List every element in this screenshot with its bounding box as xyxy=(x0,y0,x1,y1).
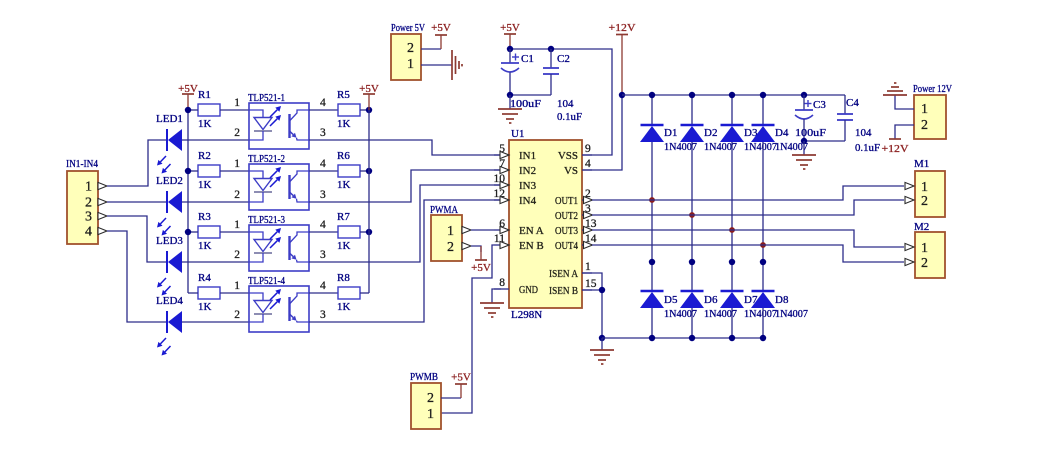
wire diode column 3 xyxy=(731,95,733,125)
optocoupler U4 TLP521-3 box xyxy=(249,225,309,271)
junction +12V rail xyxy=(619,92,625,98)
resistor R5 xyxy=(338,104,360,116)
svg-text:D5: D5 xyxy=(664,294,678,306)
diode D7 1N4007 xyxy=(721,290,744,293)
junction bottom rail col4 xyxy=(760,335,766,341)
LED4 emission arrows xyxy=(160,338,166,344)
svg-text:C4: C4 xyxy=(846,97,859,109)
wire rail to R4 xyxy=(188,292,198,294)
diode D3 1N4007 xyxy=(721,124,744,127)
resistor R8 xyxy=(338,287,360,299)
svg-text:2: 2 xyxy=(234,309,240,321)
wire +5V rail B vertical xyxy=(368,110,370,293)
wire R6 to rail B xyxy=(360,170,369,172)
resistor R4 xyxy=(198,287,220,299)
svg-text:OUT1: OUT1 xyxy=(555,195,578,207)
svg-text:1: 1 xyxy=(85,180,92,195)
svg-text:D8: D8 xyxy=(775,294,789,306)
svg-text:1: 1 xyxy=(234,219,240,231)
svg-text:IN1-IN4: IN1-IN4 xyxy=(66,158,98,170)
svg-text:C1: C1 xyxy=(521,53,534,65)
wire TLP521-1 pin3 to U1 IN1 xyxy=(309,140,502,155)
TLP521-1 internal LED xyxy=(249,110,263,117)
wire TLP521-3 pin3 to U1 IN3 xyxy=(309,185,502,262)
svg-text:1: 1 xyxy=(234,280,240,292)
power +5V rail B xyxy=(363,93,375,95)
svg-text:R5: R5 xyxy=(337,89,350,101)
svg-text:D4: D4 xyxy=(775,127,789,139)
connector J1 IN1-IN4 xyxy=(67,171,98,244)
svg-text:3: 3 xyxy=(320,189,326,201)
wire ISEN B to junction xyxy=(582,289,602,291)
TLP521-3 phototransistor xyxy=(288,236,290,260)
svg-text:IN1: IN1 xyxy=(519,150,536,162)
junction col3 mid xyxy=(729,259,735,265)
capacitor C4 0.1uF xyxy=(844,95,846,114)
svg-text:4: 4 xyxy=(320,97,326,109)
wire diode column 2 xyxy=(691,95,693,125)
node OUT3 junction red xyxy=(729,227,735,233)
junction bottom rail col2 xyxy=(689,335,695,341)
wire J1.4 to LED4 xyxy=(107,231,167,322)
wire C1 to ground xyxy=(509,95,511,109)
svg-text:R1: R1 xyxy=(198,89,211,101)
junction C1 top xyxy=(507,46,513,52)
resistor R2 xyxy=(198,165,220,177)
wire TLP pin4 to R6 xyxy=(309,170,338,172)
connector P4 Power 12V xyxy=(914,95,946,139)
power +12V at P4 inverted xyxy=(889,138,901,140)
led LED1 xyxy=(166,129,168,151)
svg-text:R4: R4 xyxy=(198,272,211,284)
wire to ground below rail xyxy=(601,338,603,350)
svg-text:2: 2 xyxy=(234,249,240,261)
junction col1 mid xyxy=(649,259,655,265)
svg-text:VS: VS xyxy=(564,165,578,177)
svg-text:IN2: IN2 xyxy=(519,165,536,177)
svg-text:3: 3 xyxy=(320,249,326,261)
svg-text:ISEN A: ISEN A xyxy=(549,268,578,280)
TLP521-4 phototransistor xyxy=(288,297,290,321)
svg-text:1: 1 xyxy=(407,57,414,72)
junction bottom rail col3 xyxy=(729,335,735,341)
svg-text:LED3: LED3 xyxy=(156,235,183,247)
node OUT2 junction red xyxy=(689,212,695,218)
wire OUT4 to M2.2 xyxy=(592,245,904,262)
svg-text:2: 2 xyxy=(447,240,454,255)
junction rail B R5 xyxy=(366,107,372,113)
connector M1 xyxy=(915,171,945,217)
ground below U1 GND xyxy=(480,302,504,304)
diode D1 1N4007 xyxy=(641,124,664,127)
wire C3 to ground xyxy=(803,141,805,155)
wire C3-C4 bottom xyxy=(804,140,845,142)
wire LED3 to TLP521-3 pin2 xyxy=(182,261,249,263)
power +5V at P1 xyxy=(435,34,447,36)
resistor R1 xyxy=(198,104,220,116)
svg-text:VSS: VSS xyxy=(558,150,578,162)
power +5V rail A xyxy=(182,93,194,95)
wire PWMA.1 to EN A xyxy=(471,229,494,231)
svg-text:1K: 1K xyxy=(198,118,212,130)
optocoupler U5 TLP521-4 box xyxy=(249,286,309,332)
svg-text:LED2: LED2 xyxy=(156,175,183,187)
wire rail to R2 xyxy=(188,170,198,172)
svg-text:1N4007: 1N4007 xyxy=(744,141,777,153)
svg-text:1N4007: 1N4007 xyxy=(744,308,777,320)
led LED2 xyxy=(166,191,168,213)
wire C1-C2 bottom xyxy=(510,94,551,96)
svg-text:EN B: EN B xyxy=(519,240,544,252)
svg-text:1K: 1K xyxy=(337,301,351,313)
svg-text:M1: M1 xyxy=(914,158,929,170)
wire J1.2 to LED2 xyxy=(107,201,167,203)
TLP521-3 internal LED xyxy=(249,232,263,239)
TLP521-2 phototransistor xyxy=(288,175,290,199)
svg-text:U1: U1 xyxy=(511,128,524,140)
node OUT4 junction red xyxy=(760,242,766,248)
connector P3 PWMB xyxy=(411,383,441,429)
svg-text:15: 15 xyxy=(585,278,597,290)
junction rail A R3 xyxy=(185,229,191,235)
power +5V below PWMA inverted xyxy=(475,259,487,261)
wire R7 to rail B xyxy=(360,231,369,233)
svg-text:OUT2: OUT2 xyxy=(555,210,578,222)
svg-text:+5V: +5V xyxy=(359,83,379,95)
connector M2 xyxy=(915,232,945,278)
TLP521-4 internal LED xyxy=(249,293,263,300)
svg-text:3: 3 xyxy=(320,309,326,321)
junction rail B R6 xyxy=(366,168,372,174)
power +5V at C1 xyxy=(504,33,516,35)
svg-text:PWMA: PWMA xyxy=(430,204,458,216)
diode D8 1N4007 xyxy=(752,290,775,293)
connector P2 PWMA xyxy=(431,215,462,261)
svg-text:3: 3 xyxy=(85,210,92,225)
svg-text:OUT4: OUT4 xyxy=(555,240,578,252)
svg-text:4: 4 xyxy=(320,219,326,231)
capacitor C3 100uF electrolytic xyxy=(803,95,805,110)
wire TLP pin4 to R5 xyxy=(309,109,338,111)
svg-text:1K: 1K xyxy=(337,240,351,252)
junction rail B R7 xyxy=(366,229,372,235)
wire OUT3 to M2.1 xyxy=(592,230,904,247)
TLP521-2 internal LED xyxy=(249,171,263,178)
svg-text:2: 2 xyxy=(85,196,92,211)
svg-text:0.1uF: 0.1uF xyxy=(855,142,880,154)
capacitor C1 100uF electrolytic xyxy=(509,49,511,63)
svg-text:2: 2 xyxy=(921,118,928,133)
ground below C3 xyxy=(792,154,816,156)
junction C1 bottom xyxy=(507,92,513,98)
svg-text:D2: D2 xyxy=(704,127,717,139)
svg-text:2: 2 xyxy=(921,256,928,271)
svg-text:1K: 1K xyxy=(337,179,351,191)
svg-text:1K: 1K xyxy=(198,240,212,252)
svg-text:M2: M2 xyxy=(914,221,929,233)
TLP521-1 emission arrows xyxy=(270,110,277,117)
wire U1 GND to ground xyxy=(492,289,501,303)
wire OUT2 to M1.2 xyxy=(592,200,904,215)
svg-text:R3: R3 xyxy=(198,211,211,223)
svg-text:GND: GND xyxy=(519,284,538,296)
wire diode column 4 xyxy=(762,95,764,125)
junction col4 mid xyxy=(760,259,766,265)
svg-text:L298N: L298N xyxy=(511,309,542,321)
svg-text:1K: 1K xyxy=(337,118,351,130)
junction C3 bottom xyxy=(801,138,807,144)
wire TLP pin4 to R8 xyxy=(309,292,338,294)
svg-text:EN A: EN A xyxy=(519,225,544,237)
svg-text:2: 2 xyxy=(234,127,240,139)
svg-text:R2: R2 xyxy=(198,150,211,162)
wire diode column 1 xyxy=(651,95,653,125)
diode D6 1N4007 xyxy=(681,290,704,293)
ground below C1 xyxy=(498,108,522,110)
LED3 emission arrows xyxy=(160,278,166,284)
TLP521-3 emission arrows xyxy=(270,232,277,239)
svg-text:TLP521-2: TLP521-2 xyxy=(248,153,285,165)
diode D2 1N4007 xyxy=(681,124,704,127)
node OUT1 junction red xyxy=(649,197,655,203)
svg-text:C2: C2 xyxy=(557,53,570,65)
wire LED1 to TLP521-1 pin2 xyxy=(182,139,249,141)
svg-text:4: 4 xyxy=(85,225,92,240)
svg-text:0.1uF: 0.1uF xyxy=(557,111,582,123)
svg-text:2: 2 xyxy=(407,41,414,56)
svg-text:LED1: LED1 xyxy=(156,113,183,125)
ground above P4 inverted xyxy=(883,94,907,96)
junction +12V rail col4 xyxy=(760,92,766,98)
svg-text:2: 2 xyxy=(921,194,928,209)
svg-text:Power 12V: Power 12V xyxy=(913,83,952,95)
wire +12V rail to diodes and C3 C4 xyxy=(622,94,845,96)
svg-text:104: 104 xyxy=(557,98,574,110)
wire R5 to rail B xyxy=(360,109,369,111)
svg-text:TLP521-4: TLP521-4 xyxy=(248,275,285,287)
svg-text:+12V: +12V xyxy=(609,22,636,34)
wire TLP521-4 pin3 to U1 IN4 xyxy=(309,200,502,322)
ground at P1 sideways xyxy=(451,50,453,80)
wire VS to +12V xyxy=(582,95,622,170)
diode D5 1N4007 xyxy=(641,290,664,293)
resistor R7 xyxy=(338,226,360,238)
wire R1 to TLP1 pin1 xyxy=(220,109,249,111)
svg-text:9: 9 xyxy=(585,143,591,155)
wire rail to R1 xyxy=(188,109,198,111)
wire PWMA.2 to +5V xyxy=(471,246,481,252)
wire P4.2 to +12V xyxy=(895,125,914,139)
svg-text:TLP521-3: TLP521-3 xyxy=(248,214,285,226)
wire +5V rail A vertical xyxy=(187,110,189,293)
junction ISEN B xyxy=(599,287,605,293)
resistor R6 xyxy=(338,165,360,177)
svg-text:D6: D6 xyxy=(704,294,718,306)
optocoupler U2 TLP521-1 box xyxy=(249,103,309,149)
svg-text:1: 1 xyxy=(447,224,454,239)
svg-text:LED4: LED4 xyxy=(156,295,183,307)
wire R3 to TLP3 pin1 xyxy=(220,231,249,233)
power +12V main xyxy=(616,34,628,36)
LED2 emission arrows xyxy=(160,218,166,224)
svg-text:1: 1 xyxy=(921,241,928,256)
wire TLP521-2 pin3 to U1 IN2 xyxy=(309,170,502,202)
wire rail to R3 xyxy=(188,231,198,233)
svg-text:1: 1 xyxy=(921,102,928,117)
led LED3 xyxy=(166,251,168,273)
svg-text:TLP521-1: TLP521-1 xyxy=(248,92,285,104)
svg-text:Power 5V: Power 5V xyxy=(391,22,425,34)
led LED4 xyxy=(166,311,168,333)
wire P1.1 to ground xyxy=(421,64,452,66)
power +5V at PWMB xyxy=(455,383,467,385)
svg-text:3: 3 xyxy=(320,127,326,139)
svg-text:OUT3: OUT3 xyxy=(555,225,578,237)
svg-text:+5V: +5V xyxy=(500,22,520,34)
svg-text:IN4: IN4 xyxy=(519,195,537,207)
capacitor C2 0.1uF xyxy=(550,49,552,68)
ground below ISEN rail xyxy=(590,349,614,351)
svg-text:1: 1 xyxy=(921,180,928,195)
junction rail A R2 xyxy=(185,168,191,174)
junction +12V rail col3 xyxy=(729,92,735,98)
junction col2 mid xyxy=(689,259,695,265)
svg-text:R6: R6 xyxy=(337,150,350,162)
svg-text:1N4007: 1N4007 xyxy=(775,308,808,320)
wire J1.1 to LED1 xyxy=(107,140,167,186)
junction C2 top xyxy=(548,46,554,52)
svg-text:1: 1 xyxy=(585,261,591,273)
svg-text:+12V: +12V xyxy=(882,143,909,155)
junction bottom rail col1 xyxy=(649,335,655,341)
svg-text:ISEN B: ISEN B xyxy=(549,285,578,297)
svg-text:IN3: IN3 xyxy=(519,180,537,192)
svg-text:4: 4 xyxy=(585,158,591,170)
svg-text:1K: 1K xyxy=(198,179,212,191)
svg-text:1: 1 xyxy=(234,97,240,109)
svg-text:100uF: 100uF xyxy=(795,127,826,139)
svg-text:1K: 1K xyxy=(198,301,212,313)
junction +12V rail col1 xyxy=(649,92,655,98)
connector P1 Power 5V xyxy=(391,34,421,80)
wire EN B to PWMB.1 xyxy=(441,245,494,413)
wire bottom rail xyxy=(602,337,763,339)
svg-text:1: 1 xyxy=(427,407,434,422)
wire LED4 to TLP521-4 pin2 xyxy=(182,321,249,323)
wire TLP pin4 to R7 xyxy=(309,231,338,233)
svg-text:4: 4 xyxy=(320,280,326,292)
svg-text:4: 4 xyxy=(320,158,326,170)
TLP521-1 phototransistor xyxy=(288,114,290,138)
svg-text:PWMB: PWMB xyxy=(410,371,438,383)
ic U1 L298N box xyxy=(509,140,582,308)
wire P4.1 to ground xyxy=(895,95,914,109)
diode D4 1N4007 xyxy=(752,124,775,127)
svg-text:2: 2 xyxy=(427,391,434,406)
junction C3 top xyxy=(801,92,807,98)
svg-text:104: 104 xyxy=(855,127,872,139)
wire OUT1 to M1.1 xyxy=(592,186,904,200)
wire R2 to TLP2 pin1 xyxy=(220,170,249,172)
svg-text:R8: R8 xyxy=(337,272,350,284)
junction +12V rail col2 xyxy=(689,92,695,98)
wire P1.2 to +5V xyxy=(421,48,441,50)
svg-text:R7: R7 xyxy=(337,211,350,223)
svg-text:8: 8 xyxy=(499,277,505,289)
svg-text:+5V: +5V xyxy=(471,262,491,274)
TLP521-4 emission arrows xyxy=(270,293,277,300)
wire LED2 to TLP521-2 pin2 xyxy=(182,201,249,203)
junction bottom rail left xyxy=(599,335,605,341)
TLP521-2 emission arrows xyxy=(270,171,277,178)
resistor R3 xyxy=(198,226,220,238)
svg-text:1: 1 xyxy=(234,158,240,170)
wire R8 to rail B xyxy=(360,292,369,294)
junction rail A R1 xyxy=(185,107,191,113)
svg-text:C3: C3 xyxy=(813,99,826,111)
svg-text:+5V: +5V xyxy=(178,83,198,95)
svg-text:+5V: +5V xyxy=(451,372,471,384)
wire J1.3 to LED3 xyxy=(107,216,167,262)
wire ISEN A to junction xyxy=(582,273,602,338)
wire +5V top rail to U1 VSS xyxy=(510,49,612,155)
svg-text:2: 2 xyxy=(234,189,240,201)
svg-text:D1: D1 xyxy=(664,127,677,139)
optocoupler U3 TLP521-2 box xyxy=(249,164,309,210)
LED1 emission arrows xyxy=(160,156,166,162)
svg-text:+5V: +5V xyxy=(431,22,451,34)
wire PWMB.2 to +5V xyxy=(441,397,461,399)
wire R4 to TLP4 pin1 xyxy=(220,292,249,294)
